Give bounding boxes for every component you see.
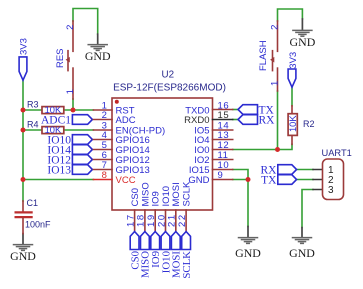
pin 1 RST — [93, 100, 134, 116]
svg-text:R3: R3 — [27, 99, 39, 109]
IC U2 ESP-12F — [112, 70, 226, 211]
svg-text:22: 22 — [177, 213, 188, 227]
pin 21 MOSI — [167, 182, 183, 231]
pin 10 IO15 — [189, 160, 233, 176]
wire pin10 IO15 to GND drop — [233, 170, 248, 180]
pin 11 IO2 — [194, 150, 233, 166]
junction node at R3/rail — [21, 108, 26, 113]
svg-text:GND: GND — [85, 49, 111, 63]
svg-text:ADC: ADC — [116, 115, 136, 126]
wire FLASH bottom to node — [277, 91, 279, 150]
wire RES top to GND — [73, 9, 98, 35]
pin 15 RXD0 — [184, 110, 233, 126]
power flag 3V3 right — [288, 52, 299, 87]
svg-text:SCLK: SCLK — [182, 181, 193, 206]
port SCLK (bottom) — [181, 232, 193, 279]
pin 2 ADC — [93, 110, 135, 126]
capacitor C1 — [16, 198, 51, 234]
svg-text:RES: RES — [55, 48, 66, 68]
svg-text:3V3: 3V3 — [288, 52, 299, 69]
port RX (UART1) — [261, 164, 297, 176]
svg-text:R2: R2 — [303, 119, 315, 129]
pin 20 IO10 — [156, 186, 172, 232]
pin 17 CS0 — [125, 188, 141, 231]
port IO10 (left) — [47, 134, 92, 146]
svg-text:2: 2 — [102, 110, 108, 121]
wire pin15 to RX — [233, 119, 238, 121]
pin 12 IO0 — [194, 140, 233, 156]
svg-text:1: 1 — [270, 80, 281, 86]
svg-text:RXD0: RXD0 — [184, 115, 209, 126]
pin 6 GPIO12 — [93, 150, 149, 166]
wire R4 right to pin3 — [64, 129, 94, 131]
port CS0 (bottom) — [129, 232, 141, 270]
junction node FLASH/R2/IO0 — [275, 147, 280, 152]
resistor R4 — [27, 119, 64, 135]
svg-text:9: 9 — [218, 170, 224, 181]
pin 18 MISO — [136, 182, 152, 231]
svg-text:IO13: IO13 — [47, 164, 71, 176]
wire pin16 to TX — [233, 109, 238, 111]
svg-text:FLASH: FLASH — [258, 40, 269, 71]
svg-text:3V3: 3V3 — [19, 38, 30, 55]
pin 4 GPIO16 — [93, 130, 149, 146]
wire R3 right to pin1 — [64, 109, 94, 111]
svg-text:R4: R4 — [27, 119, 39, 129]
svg-text:15: 15 — [218, 110, 230, 121]
junction node pin9/pin10/GND — [246, 177, 251, 182]
pin 9 GND — [188, 170, 232, 186]
port MOSI (bottom) — [171, 232, 183, 279]
pin 8 VCC — [93, 170, 135, 186]
port MISO (bottom) — [140, 232, 152, 279]
wire TX port to UART1 pin2 — [297, 179, 313, 181]
svg-text:GND: GND — [289, 246, 315, 260]
junction node at R4/rail — [21, 128, 26, 133]
junction node at VCC/rail — [21, 177, 26, 182]
ground bottom-right — [289, 228, 315, 260]
port IO13 — [47, 164, 92, 176]
port RX (pin15) — [238, 114, 275, 126]
wire pin9 GND — [233, 179, 248, 181]
svg-text:C1: C1 — [27, 198, 39, 208]
wire RES bottom to node — [72, 99, 74, 110]
svg-text:1: 1 — [65, 88, 76, 94]
pushbutton FLASH — [258, 21, 281, 91]
resistor R2 — [288, 106, 315, 145]
svg-text:UART1: UART1 — [322, 148, 352, 158]
svg-text:ADC1: ADC1 — [41, 114, 71, 126]
pin 13 IO4 — [194, 130, 233, 146]
svg-text:TX: TX — [261, 174, 277, 186]
pin 19 IO9 — [146, 191, 162, 231]
connector UART1 — [313, 148, 352, 200]
svg-text:RX: RX — [259, 114, 276, 126]
port IO9 (bottom) — [150, 232, 162, 268]
pin 3 EN(CH-PD) — [93, 120, 165, 136]
pin 7 GPIO13 — [93, 160, 149, 176]
svg-text:2: 2 — [65, 24, 76, 30]
resistor R3 — [27, 99, 64, 115]
wire VCC row to pin8 — [23, 179, 93, 181]
port TX (pin16) — [238, 104, 275, 116]
port IO12 — [47, 154, 92, 166]
svg-text:GND: GND — [10, 249, 36, 263]
pin 22 SCLK — [177, 181, 193, 231]
pushbutton RES — [55, 21, 76, 99]
svg-text:10K: 10K — [288, 115, 298, 132]
pin 16 TXD0 — [185, 100, 232, 116]
ground bottom-middle — [235, 227, 261, 260]
port ADC1 — [41, 114, 92, 126]
svg-text:3: 3 — [328, 185, 334, 196]
port IO10 (bottom) — [160, 232, 172, 274]
power flag 3V3 left — [19, 38, 30, 80]
ground top-right — [290, 19, 316, 49]
svg-text:ESP-12F(ESP8266MOD): ESP-12F(ESP8266MOD) — [113, 83, 226, 94]
svg-text:GND: GND — [235, 246, 261, 260]
wire FLASH top to GND — [278, 9, 303, 21]
port IO14 — [47, 144, 92, 156]
svg-text:VCC: VCC — [116, 175, 136, 186]
wire GND drop at pin9 node — [247, 180, 249, 227]
wire 3V3 left rail — [22, 80, 24, 201]
svg-text:U2: U2 — [162, 70, 175, 81]
ground top-left — [85, 34, 111, 63]
junction node RES/pin1 — [71, 108, 76, 113]
wire RX port to UART1 pin1 — [297, 169, 313, 171]
wire pin12 IO0 to FLASH/R2 node — [233, 144, 292, 149]
ground below C1 — [10, 234, 36, 263]
svg-text:8: 8 — [102, 170, 108, 181]
svg-text:GND: GND — [290, 35, 316, 49]
svg-text:2: 2 — [270, 24, 281, 30]
svg-text:100nF: 100nF — [25, 220, 51, 230]
wire R3 left — [23, 109, 42, 111]
wire R4 left — [23, 129, 42, 131]
port TX (UART1) — [261, 174, 296, 186]
pin 5 GPIO14 — [93, 140, 149, 156]
pin 14 IO5 — [194, 120, 233, 136]
svg-text:SCLK: SCLK — [181, 251, 193, 279]
wire UART1 pin3 to GND — [302, 190, 313, 228]
wire 3V3 right to R2 top — [291, 87, 293, 106]
